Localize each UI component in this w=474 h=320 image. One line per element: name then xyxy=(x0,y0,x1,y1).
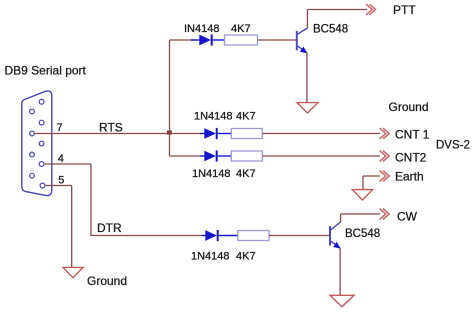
wire RTS from pin 7 to junction xyxy=(35,133,170,135)
DB9 pin 4 xyxy=(39,162,44,167)
DB9 pin 3 xyxy=(39,141,44,146)
svg-text:4K7: 4K7 xyxy=(236,111,256,123)
DB9 pin 2 xyxy=(39,120,44,125)
ground symbol below Q2 xyxy=(330,295,354,307)
diode D1 1N4148 xyxy=(191,34,225,45)
diode D4 1N4148 xyxy=(202,230,238,241)
svg-text:4K7: 4K7 xyxy=(231,23,251,35)
ground symbol DB9 xyxy=(63,267,83,277)
wire Q2 collector up xyxy=(340,214,342,222)
wire DTR branch right to Q2 base xyxy=(269,235,329,237)
DB9 pin 9 xyxy=(30,173,35,178)
diode D2 1N4148 xyxy=(200,128,231,139)
svg-text:DVS-2: DVS-2 xyxy=(436,140,470,152)
junction node at RTS riser xyxy=(167,131,172,135)
svg-text:Ground: Ground xyxy=(87,274,127,288)
wire junction to diode D2 xyxy=(170,133,201,135)
wire PTT out xyxy=(307,9,367,11)
connector chevron PTT xyxy=(366,4,376,15)
svg-text:DTR: DTR xyxy=(97,221,122,235)
svg-text:Ground: Ground xyxy=(389,100,429,114)
wire CNT2 out xyxy=(262,155,380,157)
DB9 connector J1 body xyxy=(22,91,52,196)
svg-text:Earth: Earth xyxy=(395,170,424,184)
DB9 pin 6 xyxy=(30,109,35,114)
wire Earth down xyxy=(362,176,364,189)
svg-text:4K7: 4K7 xyxy=(236,168,256,180)
wire CW out xyxy=(341,213,380,215)
connector chevron Earth xyxy=(380,171,390,182)
resistor R4 4K7 xyxy=(238,231,269,241)
DB9 pin 7 xyxy=(30,131,35,136)
DB9 pin 5 xyxy=(40,183,45,188)
ground symbol below Q1 xyxy=(297,103,318,113)
connector chevron CW xyxy=(380,209,390,220)
wire pin 5 ground down xyxy=(71,186,73,268)
svg-text:CW: CW xyxy=(397,210,418,224)
svg-text:CNT 1: CNT 1 xyxy=(395,128,430,142)
wire DTR from pin 4 xyxy=(44,163,91,165)
resistor R3 4K7 xyxy=(231,151,262,161)
resistor R1 4K7 xyxy=(225,35,258,45)
svg-text:1N4148: 1N4148 xyxy=(194,111,233,123)
wire Earth horizontal xyxy=(363,175,380,177)
transistor Q1 BC548 xyxy=(297,28,308,53)
connector chevron CNT2 xyxy=(380,151,390,162)
DB9 pin 8 xyxy=(30,152,35,157)
wire CNT2 branch left xyxy=(169,155,200,157)
wire DTR branch left xyxy=(90,235,202,237)
wire PTT branch right to Q1 base xyxy=(258,39,297,41)
wire Q1 collector up xyxy=(306,10,308,29)
svg-text:4K7: 4K7 xyxy=(236,251,256,263)
svg-text:1N4148: 1N4148 xyxy=(191,251,230,263)
wire DTR down xyxy=(90,164,92,236)
svg-text:DB9 Serial port: DB9 Serial port xyxy=(5,64,87,78)
wire pin 5 to ground xyxy=(45,185,72,187)
wire Q1 emitter down xyxy=(306,52,308,102)
svg-text:5: 5 xyxy=(58,175,64,187)
wire riser from junction down to CNT2 branch xyxy=(169,134,171,157)
svg-text:BC548: BC548 xyxy=(345,228,380,240)
svg-text:1N4148: 1N4148 xyxy=(192,168,231,180)
svg-text:4: 4 xyxy=(58,153,64,165)
svg-text:CNT2: CNT2 xyxy=(395,151,427,165)
DB9 pin 1 xyxy=(39,99,44,104)
resistor R2 4K7 xyxy=(231,129,262,139)
wire Q2 emitter down xyxy=(339,248,341,295)
svg-text:PTT: PTT xyxy=(393,3,416,17)
svg-text:RTS: RTS xyxy=(99,121,123,135)
wire PTT branch left xyxy=(169,39,195,41)
svg-text:IN4148: IN4148 xyxy=(184,23,219,35)
svg-text:7: 7 xyxy=(57,122,63,134)
transistor Q2 BC548 xyxy=(330,222,341,249)
ground symbol Earth xyxy=(352,190,372,200)
wire CNT1 out xyxy=(262,133,380,135)
wire riser from junction up to PTT branch xyxy=(169,40,171,134)
svg-text:BC548: BC548 xyxy=(313,24,348,36)
diode D3 1N4148 xyxy=(200,150,231,161)
connector chevron CNT1 xyxy=(380,128,390,139)
